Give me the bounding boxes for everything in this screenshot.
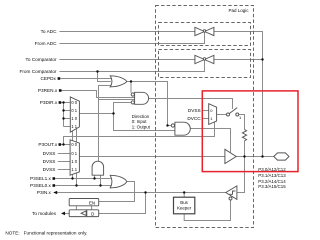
svg-text:CEPDx: CEPDx bbox=[41, 76, 57, 81]
svg-text:P3.3/A15/C15: P3.3/A15/C15 bbox=[258, 184, 286, 189]
svg-text:1 0: 1 0 bbox=[71, 116, 77, 121]
svg-text:To ADC: To ADC bbox=[41, 29, 58, 34]
svg-text:P3.0/A12/C12: P3.0/A12/C12 bbox=[258, 167, 286, 172]
svg-text:0 0: 0 0 bbox=[71, 100, 77, 105]
svg-text:P3IN.x: P3IN.x bbox=[37, 190, 52, 195]
svg-text:1 1: 1 1 bbox=[71, 167, 77, 172]
svg-text:DVSS: DVSS bbox=[43, 151, 56, 156]
svg-text:P3SEL1.x: P3SEL1.x bbox=[30, 176, 52, 181]
svg-text:DVCC: DVCC bbox=[187, 116, 201, 121]
svg-text:To Comparator: To Comparator bbox=[25, 57, 56, 62]
svg-text:NOTE: Functional representat: NOTE: Functional representation only. bbox=[5, 230, 87, 235]
svg-text:0 0: 0 0 bbox=[71, 142, 77, 147]
svg-text:Keeper: Keeper bbox=[177, 206, 192, 211]
svg-text:1 0: 1 0 bbox=[71, 159, 77, 164]
svg-text:DVSS: DVSS bbox=[43, 159, 56, 164]
svg-text:From ADC: From ADC bbox=[35, 41, 57, 46]
svg-text:0 1: 0 1 bbox=[71, 151, 77, 156]
svg-text:DVSS: DVSS bbox=[188, 108, 201, 113]
svg-text:To modules: To modules bbox=[32, 211, 57, 216]
svg-text:P3DIR.x: P3DIR.x bbox=[40, 100, 58, 105]
svg-text:Pad Logic: Pad Logic bbox=[228, 8, 249, 13]
svg-text:DVSS: DVSS bbox=[43, 167, 56, 172]
svg-text:D: D bbox=[91, 211, 94, 216]
svg-text:1: Output: 1: Output bbox=[132, 124, 151, 129]
svg-text:P3SEL0.x: P3SEL0.x bbox=[30, 183, 52, 188]
svg-text:From Comparator: From Comparator bbox=[20, 69, 57, 74]
svg-text:1 1: 1 1 bbox=[71, 124, 77, 129]
svg-text:Bus: Bus bbox=[180, 200, 188, 205]
svg-text:P3.2/A14/C14: P3.2/A14/C14 bbox=[258, 179, 286, 184]
svg-text:P3REN.x: P3REN.x bbox=[38, 88, 58, 93]
svg-text:0 1: 0 1 bbox=[71, 108, 77, 113]
svg-text:EN: EN bbox=[89, 200, 95, 205]
svg-text:P3.1/A13/C13: P3.1/A13/C13 bbox=[258, 173, 286, 178]
svg-text:P3OUT.x: P3OUT.x bbox=[38, 142, 57, 147]
